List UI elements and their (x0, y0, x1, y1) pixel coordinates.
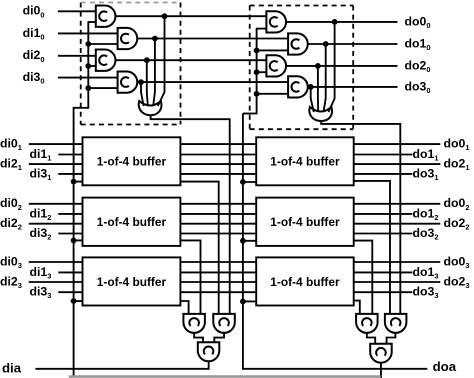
C-element U2 (118, 28, 138, 49)
buffer B6 (1-of-4 buffer) (256, 257, 354, 305)
wire di3_0 input line (58, 77, 120, 79)
wire buffer B3 ack out (178, 301, 188, 316)
node ack tap (71, 179, 77, 185)
svg-text:1-of-4 buffer: 1-of-4 buffer (270, 275, 340, 289)
wire di1_3/do1_3 channel row (58, 271, 412, 273)
wire C9 output (387, 331, 396, 345)
wire do0_0 output line (285, 21, 398, 23)
wire C-element U7 pin2 stub (256, 71, 269, 73)
C-element U3 (96, 50, 116, 71)
wire do2_0 output line (285, 65, 398, 67)
wire di3_3/do3_3 channel row (58, 291, 412, 293)
buffer B5 (1-of-4 buffer) (256, 198, 354, 246)
wire C-element U3 pin2 stub (88, 65, 98, 67)
wire U8 output drop to OR gate (311, 87, 314, 112)
node U7 output junction (315, 63, 321, 69)
wire buffer B6 ack out (352, 301, 360, 316)
wire di2_1/do2_1 channel row (29, 163, 441, 165)
wire C7 output to dia (208, 360, 210, 370)
wire right ack vertical inside box (256, 29, 258, 115)
node ack tap (71, 298, 77, 304)
wire C-element U8 pin2 stub (256, 93, 290, 95)
wire U1 output drop to OR gate (158, 16, 165, 106)
wire di2_0 input line (58, 55, 98, 57)
node ack tap (240, 299, 246, 305)
svg-text:dia: dia (2, 360, 22, 375)
wire dia line (35, 368, 209, 370)
wire U1 output to U5 row (114, 15, 268, 17)
or-gate OR1 (139, 101, 162, 115)
c-element C10 (370, 344, 392, 363)
node ack tap U7 (254, 69, 260, 75)
C-element U7 (266, 55, 286, 76)
wire U4 output to U8 row (136, 81, 290, 83)
wire C-element U1 pin2 stub (88, 21, 98, 23)
node U6 output junction (323, 41, 329, 47)
left dashed box (input completion block) (80, 3, 82, 125)
wire di2_3/do2_3 channel row (29, 281, 441, 283)
wire U6 output drop to OR gate (324, 44, 326, 112)
wire do3_0 output line (307, 86, 398, 88)
wire di3_1/do3_1 channel row (58, 173, 412, 175)
node ack tap U2 (85, 41, 91, 47)
node U1 output junction (162, 13, 168, 19)
wire buffer B4 ack out (352, 181, 390, 316)
wire OR2 output to C9 (321, 119, 400, 317)
node ack tap (240, 179, 246, 185)
wire doa horizontal line (242, 368, 427, 370)
wire buffer ack stub right (242, 181, 258, 183)
wire buffer ack stub right (242, 300, 258, 302)
c-element C6 (213, 314, 235, 333)
wire di1_0 input line (58, 32, 120, 34)
wire U2 output drop to OR gate (153, 39, 155, 107)
node ack tap U8 (254, 91, 260, 97)
svg-text:1-of-4 buffer: 1-of-4 buffer (270, 215, 340, 229)
wire left input-ack vertical net dia (73, 108, 75, 377)
node ack tap U3 (85, 63, 91, 69)
wire C-element U2 pin2 stub (88, 43, 120, 45)
node U3 output junction (144, 57, 150, 63)
wire U4 output drop to OR gate (141, 82, 144, 106)
wire right ack vertical net doa (242, 114, 244, 370)
svg-text:1-of-4 buffer: 1-of-4 buffer (97, 275, 167, 289)
wire di1_1/do1_1 channel row (58, 154, 412, 156)
c-element C7 (198, 342, 220, 361)
wire U5 output drop to OR gate (329, 22, 335, 112)
c-element C8 (356, 314, 378, 333)
buffer B2 (1-of-4 buffer) (83, 198, 181, 246)
buffer B1 (1-of-4 buffer) (83, 137, 181, 185)
node ack tap (71, 238, 77, 244)
wire buffer ack stub right (242, 240, 258, 242)
c-element C9 (385, 314, 407, 333)
svg-text:1-of-4 buffer: 1-of-4 buffer (97, 215, 167, 229)
wire buffer ack stub left (73, 181, 85, 183)
wire di0_0 input line (58, 10, 98, 12)
wire U7 output drop to OR gate (317, 66, 319, 112)
wire left ack jog (73, 107, 89, 109)
wire C8 output (367, 331, 375, 345)
wire di0_2/do0_2 channel row (29, 203, 441, 205)
wire U3 output to U7 row (114, 59, 268, 61)
wire U2 output to U6 row (136, 38, 290, 40)
svg-text:1-of-4 buffer: 1-of-4 buffer (97, 155, 167, 169)
wire right ack jog (243, 113, 257, 115)
or-gate OR2 (309, 107, 332, 121)
wire C10 output (380, 361, 382, 378)
wire di1_2/do1_2 channel row (58, 213, 412, 215)
C-element U4 (118, 71, 138, 92)
buffer B4 (1-of-4 buffer) (256, 137, 354, 185)
wire OR1 output to C6 (151, 113, 230, 316)
wire C5 output (194, 331, 203, 344)
C-element U1 (96, 6, 116, 27)
node ack tap U6 (254, 48, 260, 54)
buffer B3 (1-of-4 buffer) (83, 257, 181, 305)
svg-text:doa: doa (433, 359, 457, 374)
wire C6 output (214, 331, 224, 344)
wire gray bottom line (69, 375, 381, 377)
C-element U8 (288, 76, 308, 97)
node U2 output junction (152, 36, 158, 42)
node U4 output junction (138, 79, 144, 85)
wire C-element U6 pin2 stub (256, 49, 290, 51)
svg-text:1-of-4 buffer: 1-of-4 buffer (270, 155, 340, 169)
C-element U6 (288, 33, 308, 54)
wire di0_1/do0_1 channel row (29, 143, 441, 145)
c-element C5 (183, 314, 205, 333)
wire di2_2/do2_2 channel row (29, 223, 441, 225)
wire buffer B2 ack out (178, 240, 200, 316)
right dashed box (output completion block) (249, 6, 251, 130)
node U8 output junction (308, 84, 314, 90)
wire buffer ack stub left (73, 300, 85, 302)
C-element U5 (266, 11, 286, 32)
wire di3_2/do3_2 channel row (58, 233, 412, 235)
wire left ack vertical inside box (87, 22, 89, 109)
node ack tap U4 (85, 85, 91, 91)
wire C-element U4 pin2 stub (88, 87, 120, 89)
node U5 output junction (332, 19, 338, 25)
wire C-element U5 pin2 stub (256, 28, 269, 30)
node ack tap (240, 238, 246, 244)
wire buffer B5 ack out (352, 241, 373, 316)
wire U3 output drop to OR gate (147, 60, 148, 106)
wire di0_3/do0_3 channel row (29, 261, 441, 263)
wire buffer B1 ack out (178, 182, 218, 316)
wire do1_0 output line (307, 43, 398, 45)
wire buffer ack stub left (73, 239, 85, 241)
